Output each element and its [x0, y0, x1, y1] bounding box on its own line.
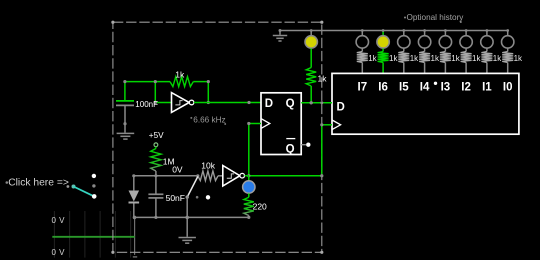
svg-text:I7: I7	[358, 81, 368, 93]
LED indicator column I2	[460, 29, 482, 73]
svg-text:1k: 1k	[389, 54, 398, 63]
label Click here	[6, 178, 69, 189]
node posts oscillator	[123, 80, 210, 104]
wire switch to ground	[186, 197, 188, 237]
ground (oscillator cap)	[117, 133, 135, 139]
wire oscillator top row	[125, 82, 208, 103]
capacitor 50nF	[148, 176, 185, 218]
svg-text:I3: I3	[441, 81, 451, 93]
top ground bus wire	[280, 30, 508, 32]
wire bottom row	[135, 216, 249, 218]
label 6.66 kHz	[190, 115, 226, 125]
svg-text:1k: 1k	[175, 69, 185, 79]
switch S1 (click target, SPDT)	[67, 174, 97, 199]
svg-text:I2: I2	[461, 81, 471, 93]
svg-text:50nF: 50nF	[166, 193, 185, 203]
LED indicator column I6	[377, 29, 399, 73]
svg-text:0V: 0V	[172, 165, 183, 175]
scope grid lines	[54, 211, 130, 258]
inverter U4 (Schmitt debounce)	[223, 166, 245, 187]
pin Q-bar stub	[301, 143, 310, 147]
svg-text:1k: 1k	[493, 54, 502, 63]
svg-text:D: D	[337, 102, 345, 114]
LED indicator column I1	[481, 29, 503, 73]
svg-text:Optional history: Optional history	[407, 13, 465, 22]
D flip-flop U2	[261, 93, 301, 156]
LED indicator column I3	[439, 29, 461, 73]
svg-text:1k: 1k	[318, 74, 328, 84]
svg-text:I4: I4	[420, 81, 430, 93]
LED indicator column I4	[418, 29, 440, 73]
wire oscillator output to FF D	[194, 102, 261, 104]
svg-text:I5: I5	[399, 81, 409, 93]
resistor 1k feedback	[170, 69, 193, 86]
svg-text:Click here =>: Click here =>	[8, 178, 69, 189]
LED indicator column I7	[356, 29, 378, 73]
LED indicator column I5	[398, 29, 420, 73]
label Optional history	[404, 13, 464, 23]
node clock posts	[247, 122, 323, 177]
diode D10	[129, 176, 140, 218]
resistor 10k	[198, 160, 218, 180]
svg-text:Q: Q	[286, 98, 295, 110]
svg-text:1k: 1k	[431, 54, 440, 63]
svg-text:1k: 1k	[472, 54, 481, 63]
svg-text:I0: I0	[503, 81, 513, 93]
svg-text:6.66 kHz: 6.66 kHz	[193, 115, 225, 124]
svg-text:100nF: 100nF	[135, 100, 158, 109]
svg-text:1k: 1k	[514, 54, 523, 63]
node top bus left	[279, 29, 282, 32]
resistor 220	[244, 193, 267, 217]
LED indicator column I0	[502, 29, 524, 73]
svg-text:1k: 1k	[368, 54, 377, 63]
svg-text:1k: 1k	[451, 54, 460, 63]
wire debounce row	[134, 175, 198, 177]
svg-text:1k: 1k	[410, 54, 419, 63]
mouse cursor dot	[434, 82, 437, 85]
svg-text:220: 220	[253, 202, 267, 212]
scope trace 0V	[52, 236, 134, 238]
svg-text:D: D	[265, 98, 273, 110]
wire inverter out to clock node	[245, 175, 249, 177]
svg-text:I6: I6	[378, 81, 388, 93]
svg-text:0 V: 0 V	[52, 216, 66, 225]
label +5V rail	[149, 131, 164, 147]
svg-text:0 V: 0 V	[52, 248, 66, 257]
shift register U3	[332, 73, 519, 134]
svg-text:10k: 10k	[201, 160, 215, 170]
wire clock net	[249, 124, 332, 176]
resistor 1k (data pull)	[306, 49, 327, 103]
capacitor 100nF	[116, 100, 158, 133]
switch S2 (debounce pushbutton, open)	[186, 177, 211, 200]
inverter U1 (Schmitt oscillator)	[172, 93, 194, 113]
selection rectangle (dashed)	[111, 21, 323, 254]
ground (switch)	[179, 238, 196, 244]
LED D11 clock indicator (blue, lit)	[243, 176, 255, 194]
ground (top bus)	[273, 31, 287, 42]
svg-text:Q: Q	[286, 144, 295, 156]
resistor 1M pullup	[151, 147, 175, 176]
scope separator right edge	[133, 217, 137, 257]
svg-text:+5V: +5V	[149, 131, 164, 140]
svg-text:I1: I1	[482, 81, 492, 93]
LED D9 current bit (lit)	[305, 29, 317, 48]
wire Q to shift register D	[301, 102, 332, 104]
